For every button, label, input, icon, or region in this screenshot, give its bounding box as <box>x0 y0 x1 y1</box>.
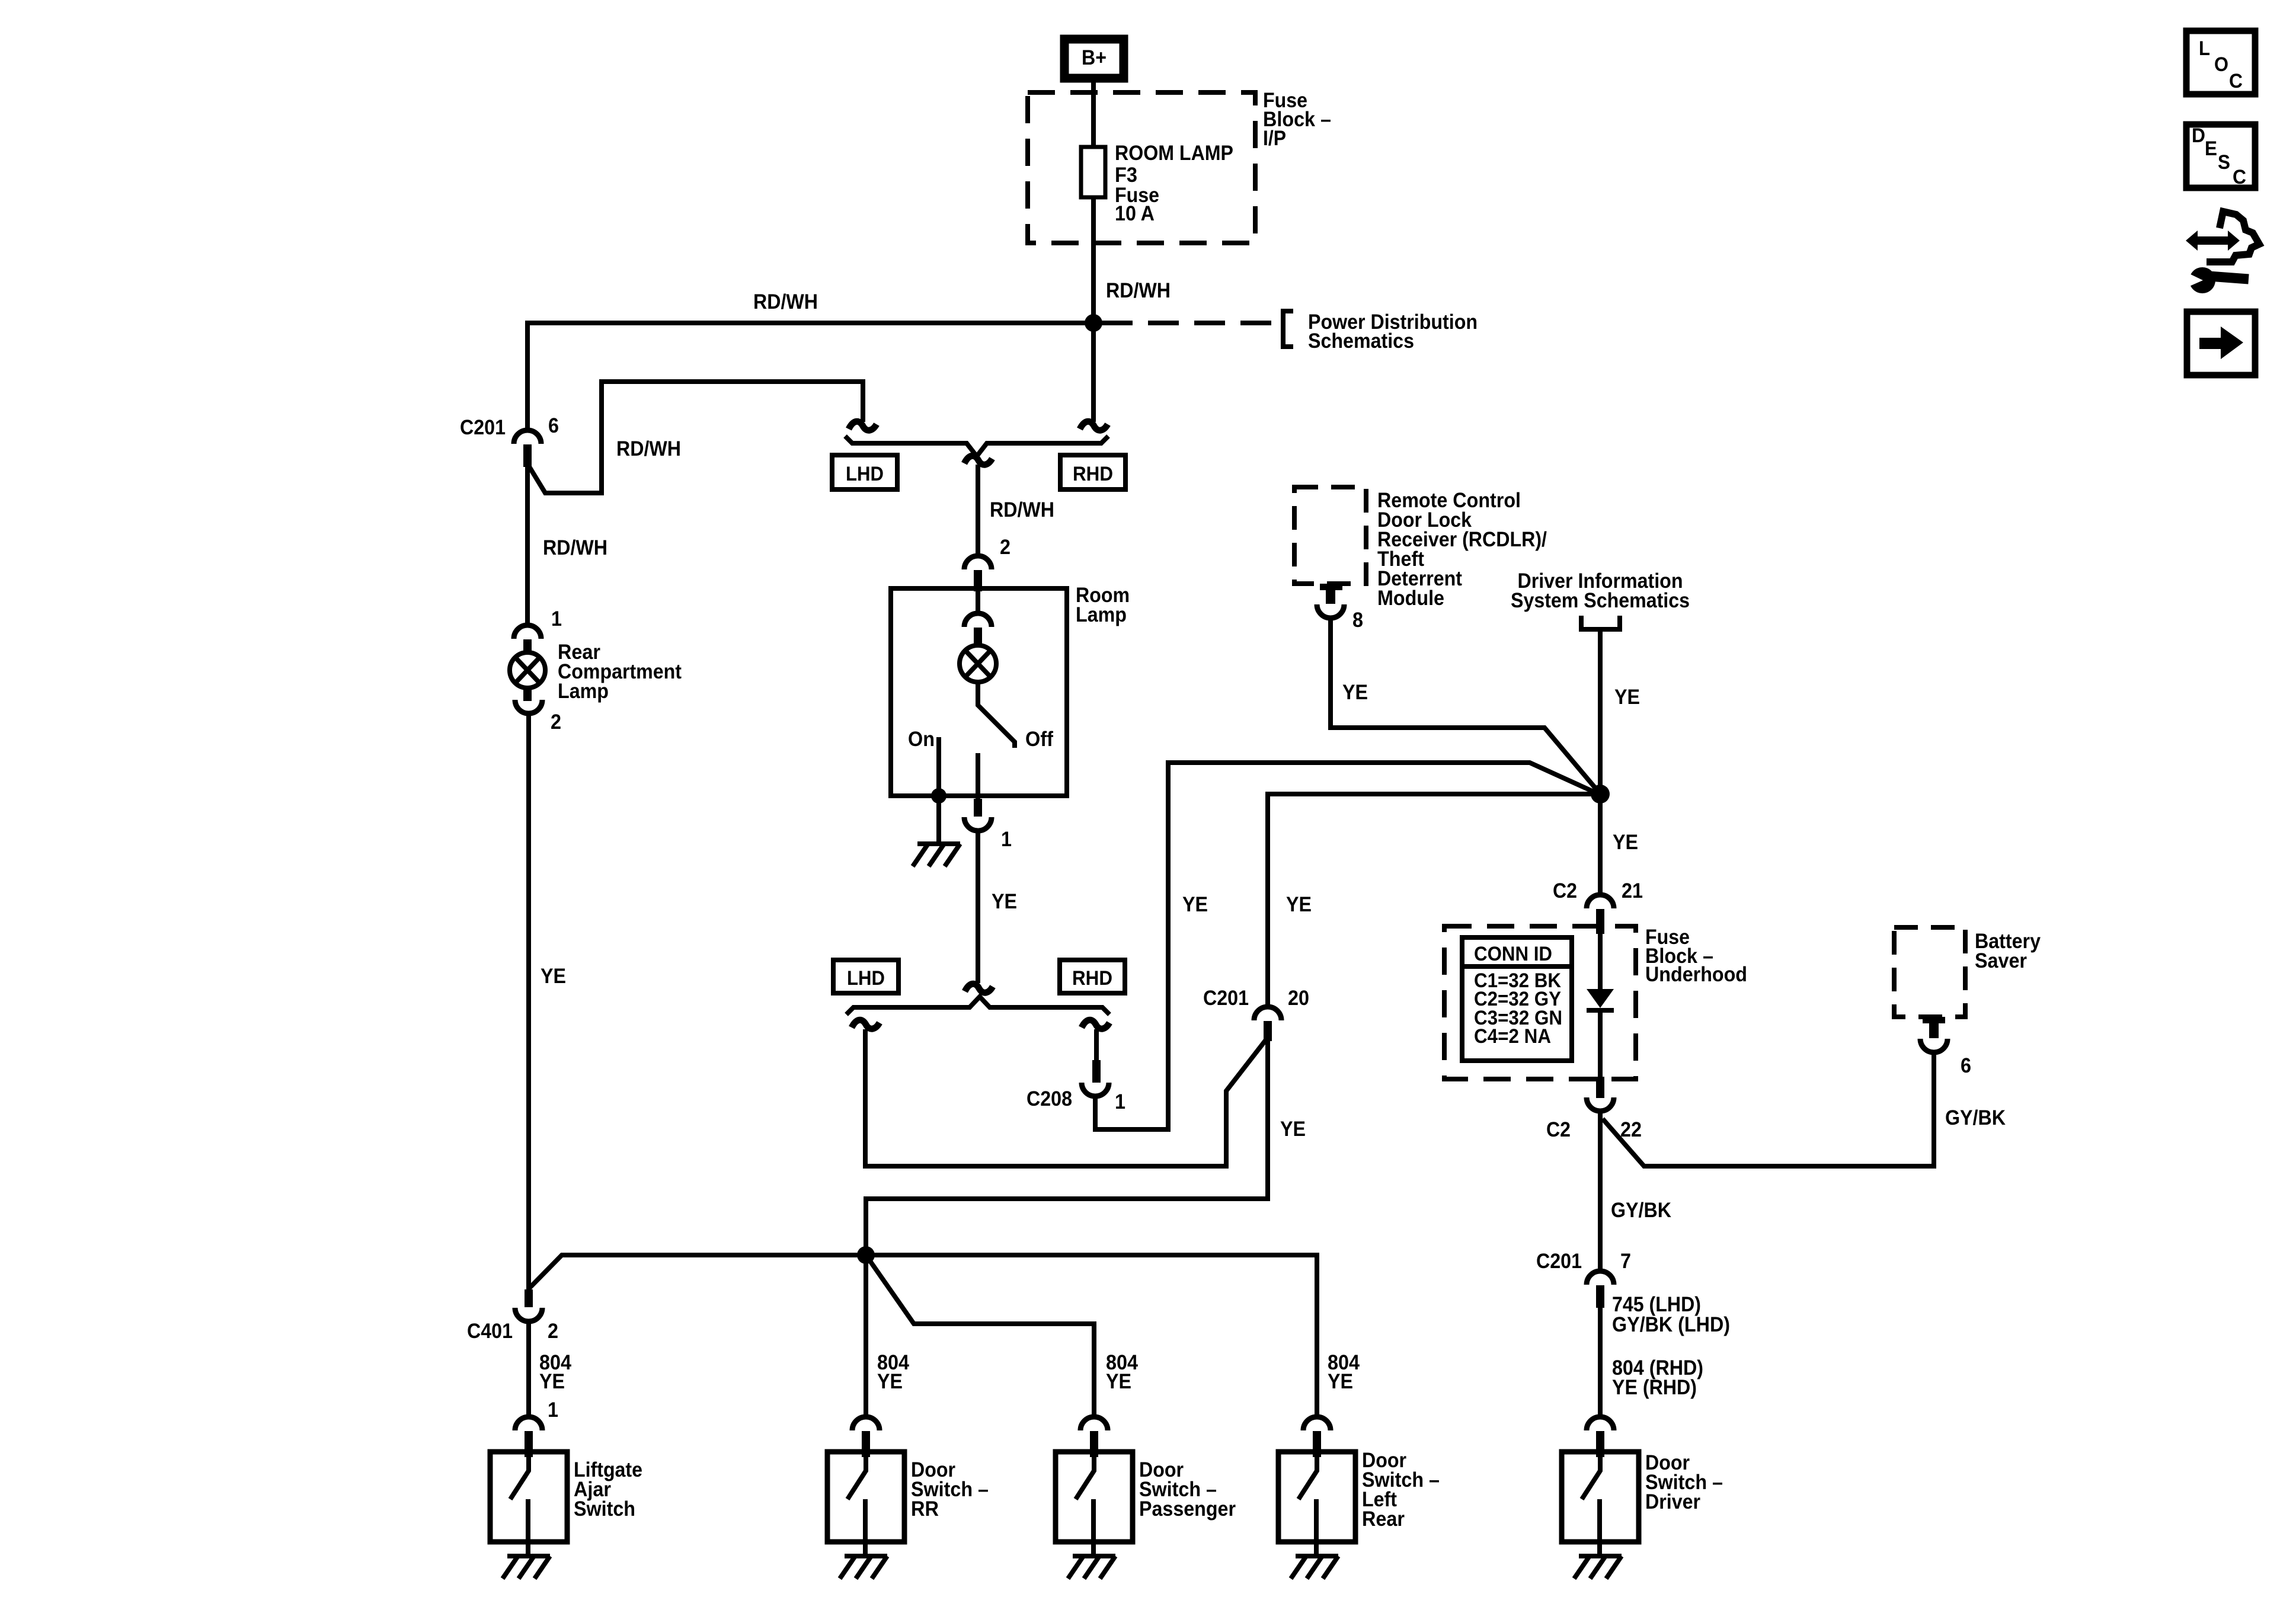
wire main horizontal RD/WH <box>527 323 1093 431</box>
label Battery Saver <box>1975 930 2041 972</box>
CONN ID table <box>1462 937 1572 1061</box>
wire diode to C2-22 <box>1598 1010 1603 1077</box>
svg-text:Passenger: Passenger <box>1139 1497 1236 1521</box>
svg-text:RR: RR <box>911 1497 939 1521</box>
wire break squiggle left <box>849 421 877 430</box>
LHD box lower <box>833 960 898 993</box>
svg-text:LHD: LHD <box>846 463 884 485</box>
arrow icon box <box>2187 312 2255 375</box>
connector battery saver pin 6 <box>1920 1017 1948 1052</box>
fuse F3 ROOM LAMP <box>1081 142 1233 225</box>
bracket driver information <box>1581 616 1620 629</box>
RHD box <box>1060 455 1125 489</box>
svg-text:YE: YE <box>1286 893 1312 916</box>
ground driver switch <box>1574 1556 1622 1579</box>
svg-text:C208: C208 <box>1027 1087 1072 1110</box>
wire C201-20 down to bottom rail <box>866 1040 1268 1247</box>
svg-text:YE (RHD): YE (RHD) <box>1612 1376 1697 1399</box>
fuse block underhood dashed box <box>1444 926 1636 1079</box>
label Rear Compartment Lamp <box>558 641 682 703</box>
svg-text:Off: Off <box>1025 728 1053 751</box>
svg-text:S: S <box>2218 151 2230 174</box>
svg-text:YE: YE <box>541 965 566 988</box>
door switch left rear <box>1278 1452 1355 1556</box>
svg-text:LHD: LHD <box>847 967 885 990</box>
connector C201 pin 6 <box>514 430 541 467</box>
wire C201-7 to driver switch <box>1598 1307 1603 1417</box>
svg-text:C201: C201 <box>1536 1250 1582 1273</box>
svg-text:C: C <box>2233 166 2246 188</box>
svg-text:RD/WH: RD/WH <box>543 536 607 559</box>
wire C2-21 to diode <box>1598 933 1603 991</box>
lamp bulb room lamp <box>960 645 996 682</box>
node main junction dot <box>1591 785 1610 804</box>
connector driver switch pin <box>1587 1417 1614 1457</box>
wire jog from C201-6 to LHD brace <box>529 382 863 493</box>
connector C2 pin 21 <box>1587 895 1614 934</box>
svg-text:1: 1 <box>1115 1090 1125 1113</box>
svg-text:C2: C2 <box>1546 1118 1571 1141</box>
connector liftgate switch pin <box>515 1417 542 1457</box>
door switch RR <box>827 1452 904 1556</box>
ground room lamp <box>913 844 960 866</box>
wire On contact to ground <box>936 737 941 842</box>
wire break squiggle below brace2 left <box>852 1020 880 1029</box>
car and wrench icon <box>2186 212 2259 293</box>
wire C401 to liftgate switch <box>526 1321 531 1417</box>
label Door Switch - Driver <box>1645 1451 1723 1513</box>
wire break squiggle below brace center <box>964 456 992 465</box>
svg-text:RD/WH: RD/WH <box>753 290 818 313</box>
wire inside room lamp <box>976 590 980 613</box>
svg-text:System Schematics: System Schematics <box>1511 589 1690 612</box>
svg-text:2: 2 <box>551 710 561 734</box>
svg-text:7: 7 <box>1620 1250 1631 1273</box>
wire rear lamp to C401 <box>526 713 531 1289</box>
connector C2 pin 22 <box>1587 1077 1614 1111</box>
svg-text:Lamp: Lamp <box>558 680 609 703</box>
label Door Switch - Left Rear <box>1362 1449 1440 1531</box>
LOC icon box <box>2186 31 2255 94</box>
connector rear lamp pin 2 <box>515 686 542 713</box>
svg-text:YE: YE <box>1342 681 1368 704</box>
svg-text:Rear: Rear <box>1362 1507 1405 1531</box>
svg-text:1: 1 <box>1001 828 1012 851</box>
RCDLR module dashed box <box>1294 487 1366 584</box>
connector C201 pin 20 <box>1254 1007 1281 1041</box>
svg-text:2: 2 <box>548 1320 558 1343</box>
connector rear lamp pin 1 <box>514 625 541 655</box>
label Door Switch - Passenger <box>1139 1458 1236 1521</box>
lamp rear compartment <box>510 652 545 688</box>
svg-text:RD/WH: RD/WH <box>616 437 681 460</box>
wire C2-22 to C201-7 <box>1598 1111 1603 1271</box>
LHD box <box>832 455 897 489</box>
svg-text:YE: YE <box>1328 1370 1353 1393</box>
svg-text:O: O <box>2214 53 2228 76</box>
node bottom rail junction dot <box>857 1246 875 1264</box>
connector room lamp pin 1 <box>964 799 992 831</box>
connector C208 pin 1 <box>1082 1060 1109 1096</box>
label Door Switch - RR <box>911 1458 989 1521</box>
ground liftgate <box>503 1556 550 1579</box>
connector C201 pin 7 <box>1587 1271 1614 1308</box>
B+ battery terminal <box>1064 39 1124 78</box>
wire B+ to fuse <box>1091 82 1096 149</box>
svg-text:6: 6 <box>1961 1054 1971 1077</box>
svg-text:Saver: Saver <box>1975 949 2027 972</box>
wire break squiggle right on B+ line <box>1080 421 1108 430</box>
label Driver Information System Schematics <box>1511 569 1690 612</box>
svg-text:Schematics: Schematics <box>1308 329 1414 353</box>
svg-text:I/P: I/P <box>1263 127 1286 150</box>
svg-text:GY/BK: GY/BK <box>1945 1106 2006 1129</box>
svg-text:YE: YE <box>1614 686 1640 709</box>
switch blade room lamp <box>978 682 1015 748</box>
connector RCDLR pin 8 <box>1317 584 1344 618</box>
label Room Lamp <box>1076 584 1130 626</box>
wire driver info to junction <box>1598 629 1603 794</box>
svg-text:YE: YE <box>1182 893 1208 916</box>
svg-text:C2: C2 <box>1553 879 1577 902</box>
RHD box lower <box>1060 960 1125 993</box>
brace LHD/RHD top <box>845 436 1108 456</box>
wire left column down from C201-6 <box>525 466 530 626</box>
wire brace to room lamp <box>976 465 980 556</box>
ground left rear switch <box>1291 1556 1338 1579</box>
liftgate ajar switch <box>490 1452 567 1556</box>
wire junction to RHD brace <box>1091 323 1096 422</box>
wire Off contact down <box>976 753 980 800</box>
wire junction to C2-21 <box>1598 794 1603 895</box>
label 804 (RHD) YE (RHD) <box>1612 1356 1703 1399</box>
wire fuse to junction <box>1091 197 1096 325</box>
room lamp box <box>891 588 1067 796</box>
svg-text:RHD: RHD <box>1072 967 1112 990</box>
label Fuse Block - Underhood <box>1645 926 1747 986</box>
brace LHD/RHD bottom <box>846 997 1109 1014</box>
svg-text:2: 2 <box>1000 536 1011 559</box>
svg-text:YE: YE <box>992 890 1017 913</box>
wire LHD leg to C201-20 <box>865 1029 1265 1166</box>
svg-text:Driver: Driver <box>1645 1490 1700 1513</box>
wire branch diagonal to bottom rail <box>529 1255 866 1288</box>
svg-text:YE: YE <box>1613 831 1638 854</box>
svg-text:Underhood: Underhood <box>1645 963 1747 986</box>
svg-text:ROOM LAMP: ROOM LAMP <box>1115 142 1233 165</box>
wire RHD leg to C208 <box>1094 1029 1099 1061</box>
svg-text:L: L <box>2199 37 2210 60</box>
connector passenger switch pin <box>1080 1417 1108 1457</box>
connector RR switch pin <box>852 1417 880 1457</box>
svg-text:RD/WH: RD/WH <box>1106 279 1171 302</box>
diode battery saver <box>1587 989 1614 1010</box>
ground passenger switch <box>1068 1556 1115 1579</box>
label Fuse Block - I/P <box>1263 89 1331 150</box>
door switch passenger <box>1056 1452 1133 1556</box>
connector inside room lamp <box>964 613 992 645</box>
svg-text:10 A: 10 A <box>1115 202 1155 225</box>
svg-text:21: 21 <box>1622 879 1643 902</box>
wire dashed to power distribution <box>1102 321 1274 325</box>
svg-text:B+: B+ <box>1082 46 1107 69</box>
battery saver dashed box <box>1894 927 1965 1017</box>
label Liftgate Ajar Switch <box>574 1458 642 1521</box>
node junction dot <box>1085 314 1102 332</box>
svg-text:CONN ID: CONN ID <box>1474 943 1552 965</box>
svg-text:C401: C401 <box>467 1320 513 1343</box>
svg-text:20: 20 <box>1288 987 1309 1010</box>
node dot on box edge <box>931 788 946 804</box>
wire RCDLR to junction <box>1331 618 1601 795</box>
svg-text:Lamp: Lamp <box>1076 603 1127 626</box>
connector C401 pin 2 <box>515 1289 542 1321</box>
svg-text:1: 1 <box>551 607 562 630</box>
label 745 (LHD) GY/BK (LHD) <box>1612 1293 1730 1336</box>
svg-text:C: C <box>2229 70 2243 92</box>
power distribution bracket <box>1283 311 1293 347</box>
DESC icon box <box>2186 124 2255 188</box>
wire dot to left rear switch <box>866 1255 1317 1417</box>
label Power Distribution Schematics <box>1308 311 1478 353</box>
wire dot to RR switch <box>864 1255 868 1417</box>
svg-text:Module: Module <box>1377 587 1444 610</box>
fuse block I/P dashed box <box>1028 92 1255 243</box>
wire C208 to riser <box>1095 763 1601 1129</box>
ground RR switch <box>840 1556 887 1579</box>
svg-text:1: 1 <box>548 1398 558 1422</box>
svg-text:RHD: RHD <box>1073 463 1113 485</box>
svg-text:GY/BK (LHD): GY/BK (LHD) <box>1612 1313 1730 1336</box>
wire room lamp to brace 2 <box>976 830 980 983</box>
svg-text:GY/BK: GY/BK <box>1611 1199 1671 1222</box>
svg-text:22: 22 <box>1620 1118 1642 1141</box>
svg-text:Switch: Switch <box>574 1497 635 1521</box>
wire break squiggle above brace 2 <box>965 984 993 993</box>
svg-text:YE: YE <box>877 1370 903 1393</box>
connector left rear switch pin <box>1303 1417 1331 1457</box>
wire battery saver to C2-22 <box>1603 1052 1934 1166</box>
svg-text:6: 6 <box>548 414 559 437</box>
svg-text:YE: YE <box>1106 1370 1131 1393</box>
wire C201-20 riser to junction <box>1268 794 1600 1007</box>
svg-text:E: E <box>2205 137 2217 160</box>
svg-text:C4=2 NA: C4=2 NA <box>1474 1025 1551 1048</box>
svg-text:YE: YE <box>539 1370 565 1393</box>
svg-text:D: D <box>2192 124 2205 147</box>
wire dot diagonal to passenger switch <box>866 1255 1094 1417</box>
wire break squiggle below brace2 right <box>1082 1020 1109 1029</box>
svg-text:RD/WH: RD/WH <box>990 498 1054 521</box>
door switch driver <box>1562 1452 1639 1556</box>
connector room lamp pin 2 <box>964 556 992 591</box>
svg-text:8: 8 <box>1352 609 1363 632</box>
svg-text:C201: C201 <box>460 416 506 439</box>
label Remote Control Door Lock Receiver <box>1377 489 1547 610</box>
svg-text:On: On <box>908 728 935 751</box>
svg-text:YE: YE <box>1280 1118 1306 1141</box>
svg-text:C201: C201 <box>1203 987 1249 1010</box>
